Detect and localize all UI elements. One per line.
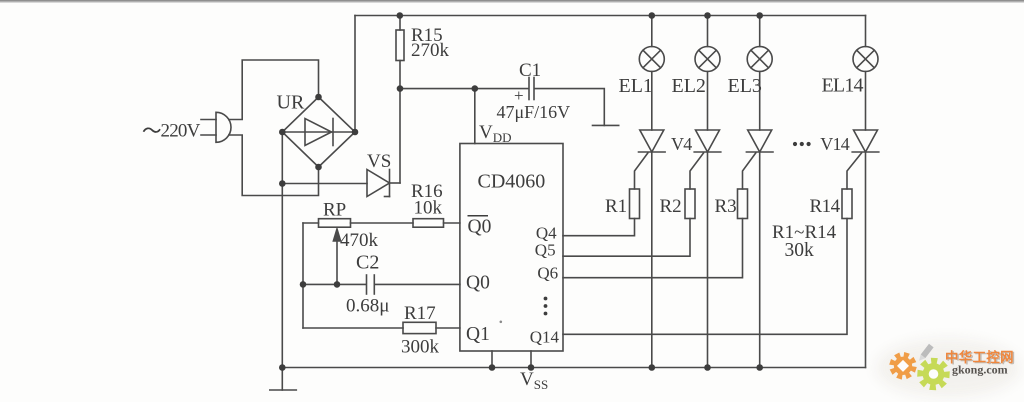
- capacitor C2: [367, 275, 375, 294]
- junction top rail EL1: [649, 12, 656, 19]
- junction rail V5: [756, 364, 763, 371]
- junction rail V1: [649, 364, 656, 371]
- wire VDD node rail to C1: [400, 88, 528, 90]
- wire pin Q5 to R2: [563, 219, 690, 257]
- svg-text:Q0: Q0: [466, 273, 490, 294]
- wire EL14 drop from rail: [865, 16, 867, 47]
- svg-text:Q6: Q6: [537, 264, 558, 283]
- wire VSS stub left: [491, 351, 493, 368]
- svg-text:Q14: Q14: [530, 328, 560, 347]
- junction top rail R15: [397, 12, 404, 19]
- wire RP to R16: [351, 222, 414, 224]
- wire top rail +V: [355, 15, 866, 17]
- svg-text:gkong.com: gkong.com: [952, 363, 1008, 377]
- svg-text:CD4060: CD4060: [478, 171, 546, 193]
- wire pin Q14 to R14: [563, 219, 847, 335]
- svg-text:10k: 10k: [414, 198, 443, 219]
- junction VSS stub right: [528, 364, 535, 371]
- thyristor V5: [743, 72, 774, 190]
- wire bridge right vertex riser: [354, 16, 356, 133]
- capacitor C1: [529, 78, 534, 100]
- svg-text:EL1: EL1: [619, 75, 653, 97]
- svg-text:30k: 30k: [785, 240, 815, 261]
- label ~220V tilde: [144, 128, 161, 132]
- svg-text:UR: UR: [277, 92, 305, 114]
- thyristor V4: [690, 72, 721, 190]
- bridge rectifier UR: [282, 97, 355, 167]
- svg-text:270k: 270k: [411, 40, 450, 61]
- svg-text:EL14: EL14: [822, 75, 864, 97]
- wire bottom rail VSS: [282, 367, 865, 369]
- junction node VDD: [472, 85, 479, 92]
- svg-text:C2: C2: [356, 252, 379, 274]
- wire C2 left lead: [303, 283, 366, 285]
- ground: [270, 369, 297, 391]
- svg-text:EL3: EL3: [728, 75, 762, 97]
- junction top rail EL3: [756, 12, 763, 19]
- svg-text:VDD: VDD: [479, 122, 512, 145]
- wire V4 cathode to rail: [707, 152, 709, 368]
- wire R15 column: [399, 16, 401, 184]
- svg-text:470k: 470k: [340, 230, 379, 251]
- svg-text:R2: R2: [660, 196, 682, 217]
- resistor R3: [738, 189, 748, 219]
- junction rail V4: [704, 364, 711, 371]
- wire R17 to pin Q1: [436, 327, 460, 329]
- lamp EL2: [695, 16, 720, 72]
- junction ground rail left: [279, 364, 286, 371]
- wire plug to AC top: [229, 60, 319, 120]
- svg-text:0.68μ: 0.68μ: [346, 296, 389, 317]
- svg-text:V14: V14: [820, 134, 849, 154]
- wire R16 to pin Q0bar: [444, 222, 460, 224]
- wire bridge left vertex down to ground rail: [281, 132, 283, 369]
- plug P1: [201, 112, 231, 142]
- thyristor V14: [847, 72, 879, 190]
- svg-text:EL2: EL2: [672, 75, 706, 97]
- junction RP column C2: [300, 281, 307, 288]
- ellipsis pins: [544, 297, 548, 316]
- wire pin Q4 to R1: [563, 219, 635, 236]
- wire C2 to pin Q0: [375, 283, 460, 285]
- wire C1 right to negative stub: [535, 89, 605, 126]
- resistor R17: [403, 322, 436, 333]
- resistor R15: [396, 30, 404, 61]
- svg-text:47μF/16V: 47μF/16V: [497, 102, 571, 122]
- resistor R16: [413, 219, 444, 228]
- wire V5 cathode to rail: [759, 152, 761, 368]
- svg-text:300k: 300k: [401, 337, 440, 358]
- wire V14 cathode to rail: [865, 152, 867, 368]
- potentiometer RP: [319, 219, 351, 285]
- junction bridge top vertex: [315, 94, 322, 101]
- thyristor V1: [635, 72, 666, 190]
- lamp EL3: [747, 16, 772, 72]
- svg-text:VSS: VSS: [520, 369, 548, 392]
- top page border artifact: [0, 0, 1024, 2]
- junction RP wiper C2: [334, 281, 341, 288]
- wire plug to AC bottom: [229, 135, 319, 196]
- wire V1 cathode to rail: [651, 152, 653, 368]
- resistor R14: [842, 189, 852, 219]
- svg-text:220V: 220V: [161, 121, 201, 142]
- wire RP left lead: [303, 222, 319, 224]
- svg-text:VS: VS: [367, 151, 391, 172]
- junction R15 bottom: [397, 85, 404, 92]
- junction VSS stub left: [489, 364, 496, 371]
- speck artifact: [500, 321, 503, 324]
- svg-text:R14: R14: [810, 196, 841, 217]
- resistor R2: [685, 189, 695, 219]
- C1 negative terminal bar: [593, 124, 619, 126]
- svg-text:C1: C1: [519, 60, 541, 81]
- junction bridge bottom vertex: [315, 164, 322, 171]
- svg-text:R3: R3: [715, 196, 737, 217]
- resistor R1: [630, 189, 640, 219]
- svg-text:RP: RP: [323, 200, 346, 221]
- lamp EL14: [853, 47, 878, 72]
- wire node A to VS anode: [282, 183, 367, 185]
- junction node VS anode: [279, 180, 286, 187]
- wire RP left column: [302, 223, 304, 328]
- wire VSS stub right: [530, 351, 532, 368]
- diode VS: [367, 170, 390, 197]
- svg-text:R17: R17: [404, 303, 436, 324]
- svg-text:Q5: Q5: [535, 241, 556, 260]
- junction top rail EL2: [704, 12, 711, 19]
- svg-text:R1: R1: [605, 196, 627, 217]
- junction bridge right vertex: [352, 129, 359, 136]
- ellipsis thyristors: [793, 142, 811, 146]
- svg-text:Q0: Q0: [468, 217, 492, 238]
- op IC U1 CD4060 box: [460, 144, 563, 352]
- wire VS cathode to R15 column: [390, 182, 401, 184]
- wire VDD stub into IC: [474, 89, 476, 144]
- pin Q0bar: [468, 216, 492, 238]
- svg-text:Q1: Q1: [466, 324, 490, 345]
- junction bridge left vertex: [279, 129, 286, 136]
- watermark gkong logo: [876, 339, 1020, 397]
- svg-text:V4: V4: [671, 134, 692, 154]
- wire R17 left lead: [303, 327, 403, 329]
- lamp EL1: [639, 16, 664, 72]
- wire pin Q6 to R3: [563, 219, 743, 278]
